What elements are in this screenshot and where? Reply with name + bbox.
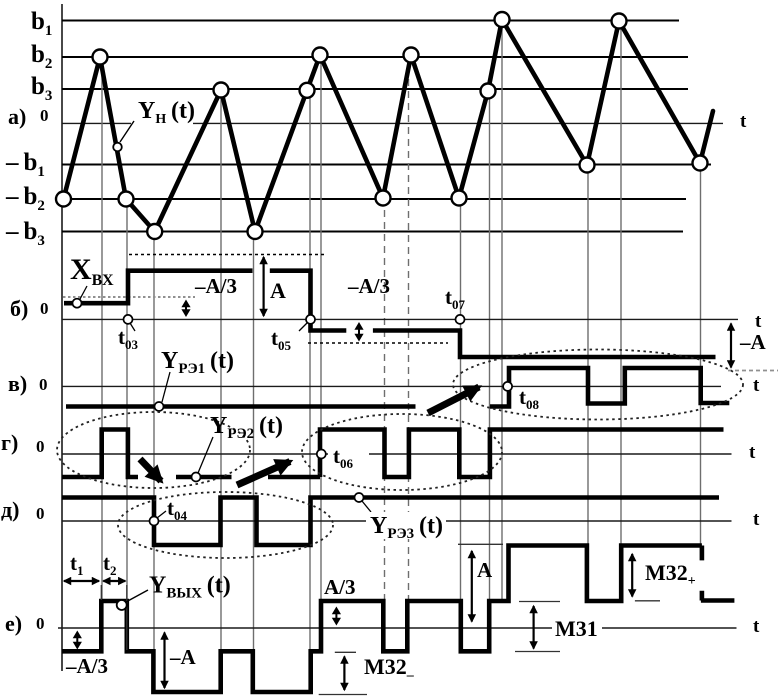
t06 white bg xyxy=(328,444,369,469)
svg-text:t: t xyxy=(755,311,762,332)
arrow t2 xyxy=(103,580,125,582)
gridline x700 xyxy=(700,163,702,545)
svg-text:0: 0 xyxy=(36,437,45,456)
svg-text:–А/3: –А/3 xyxy=(194,274,237,298)
axis 0 plot a xyxy=(62,122,723,124)
M32+ tick xyxy=(635,600,660,602)
svg-text:–А/3: –А/3 xyxy=(65,654,108,678)
svg-text:г): г) xyxy=(1,430,18,455)
ellipse C xyxy=(302,414,502,490)
circle t04 xyxy=(150,517,159,526)
circle t07 xyxy=(456,315,465,324)
gridline x460 xyxy=(460,198,462,601)
svg-text:–А: –А xyxy=(739,330,767,354)
svg-text:0: 0 xyxy=(36,504,45,523)
vertical gridlines xyxy=(102,20,701,652)
svg-text:е): е) xyxy=(5,611,22,636)
big arrow 1 down xyxy=(140,459,161,481)
leader Yre1 xyxy=(162,372,170,402)
arrow A xyxy=(263,257,265,316)
arrow A/3 xyxy=(335,613,337,619)
grid line -b3 xyxy=(62,231,683,233)
label gap xyxy=(131,119,193,129)
arrow -A/3 small left xyxy=(185,306,187,311)
svg-text:–А/3: –А/3 xyxy=(347,274,390,298)
marker circle Yre2 xyxy=(192,473,201,482)
grid line b1 xyxy=(62,20,679,22)
leader Yre3 xyxy=(362,501,371,512)
circle t06 xyxy=(317,450,326,459)
arrow A plot e xyxy=(471,551,473,622)
gridline x384 dashed xyxy=(384,198,386,601)
waveform Yvyh xyxy=(62,546,702,693)
gridline x154 xyxy=(153,232,155,651)
M31 ticks xyxy=(519,601,560,603)
leader t04 xyxy=(157,511,166,518)
svg-text:д): д) xyxy=(1,497,19,522)
leader t05 xyxy=(299,323,307,331)
marker circle Yvyh xyxy=(117,600,127,610)
svg-text:А: А xyxy=(477,558,493,582)
axis 0 plot b xyxy=(62,318,738,320)
Yre3 white bg xyxy=(366,512,446,539)
axis 0 plot e xyxy=(58,627,737,629)
svg-text:б): б) xyxy=(10,296,28,321)
ellipse D xyxy=(453,350,743,420)
arrow t1 xyxy=(64,580,99,582)
arrow -A/3 xyxy=(76,637,78,643)
grid line b2 xyxy=(62,56,688,58)
svg-text:–А: –А xyxy=(169,645,197,669)
svg-text:0: 0 xyxy=(40,299,49,318)
circle t08 xyxy=(503,382,512,391)
ellipse B xyxy=(118,492,333,558)
gridline x408 dashed xyxy=(408,55,410,601)
svg-text:t: t xyxy=(753,616,760,637)
svg-text:t: t xyxy=(753,375,760,396)
grey dashed -A line right xyxy=(728,370,778,372)
waveform Yre2 xyxy=(62,430,724,478)
waveform Yre1 xyxy=(66,368,729,407)
gridline x102 xyxy=(101,59,103,601)
M31 white bg xyxy=(552,618,602,638)
big arrow to t08 xyxy=(428,387,479,413)
marker circle Yre1 xyxy=(155,402,164,411)
svg-text:t: t xyxy=(753,509,760,530)
marker circle Yn label xyxy=(113,143,122,152)
gridline x127 xyxy=(126,199,128,651)
svg-text:t: t xyxy=(749,442,756,463)
arrow -A plot e xyxy=(163,633,165,689)
ellipse A xyxy=(57,412,250,488)
svg-text:0: 0 xyxy=(39,375,48,394)
gridline x253 xyxy=(253,232,255,651)
main vertical axis xyxy=(61,4,63,671)
gridline x502 xyxy=(501,20,503,602)
svg-text:в): в) xyxy=(8,371,27,396)
arrow M32+ xyxy=(631,554,633,597)
M32- ticks xyxy=(335,651,356,653)
leader t03 xyxy=(130,323,135,331)
A top tick xyxy=(458,543,503,545)
circle t05 xyxy=(306,315,315,324)
big arrow 2 up xyxy=(237,462,290,486)
axis 0 plot v xyxy=(62,385,721,387)
leader Xvx xyxy=(80,286,87,299)
svg-text:А: А xyxy=(270,278,286,303)
svg-text:0: 0 xyxy=(36,614,45,633)
axis 0 plot d xyxy=(62,520,732,522)
dotted -A/3 line xyxy=(308,342,448,344)
dotted top A line xyxy=(129,254,325,256)
waveform Yn(t) triangular xyxy=(64,20,714,232)
waveform Xvx xyxy=(64,271,716,357)
svg-text:М31: М31 xyxy=(555,616,598,641)
waveform Yre3 xyxy=(62,498,719,546)
leader Yn xyxy=(120,121,134,142)
circle t03 xyxy=(124,315,133,324)
arrow -A/3 mid xyxy=(358,328,360,335)
grid line -b1 xyxy=(62,164,711,166)
broken edge end xyxy=(701,546,735,601)
gridline x221 xyxy=(220,90,222,651)
svg-text:а): а) xyxy=(8,104,26,129)
gridline x310 xyxy=(309,90,311,651)
axis 0 plot g xyxy=(62,453,732,455)
arrow M32- xyxy=(343,657,345,691)
svg-text:А/3: А/3 xyxy=(324,575,356,599)
arrow -A right xyxy=(730,324,732,368)
svg-text:0: 0 xyxy=(40,106,49,125)
grid line b3 xyxy=(62,88,688,90)
marker circle Xvx xyxy=(73,299,82,308)
gridline x321 xyxy=(320,57,322,601)
vertex circles plot a xyxy=(56,12,708,239)
grid line -b2 xyxy=(62,198,686,200)
dotted grey level line xyxy=(63,296,195,298)
leader Yvyh xyxy=(126,590,148,602)
gridline x489 xyxy=(489,91,491,601)
arrow M31 xyxy=(532,606,534,649)
gridline x621 xyxy=(620,21,622,601)
svg-text:t: t xyxy=(740,111,747,132)
svg-text:YН (t): YН (t) xyxy=(138,98,195,127)
gridline x588 xyxy=(587,166,589,601)
marker circle Yre3 xyxy=(355,493,364,502)
t1 t2 boundary lines xyxy=(100,585,102,600)
leader Yre2 xyxy=(198,437,213,473)
